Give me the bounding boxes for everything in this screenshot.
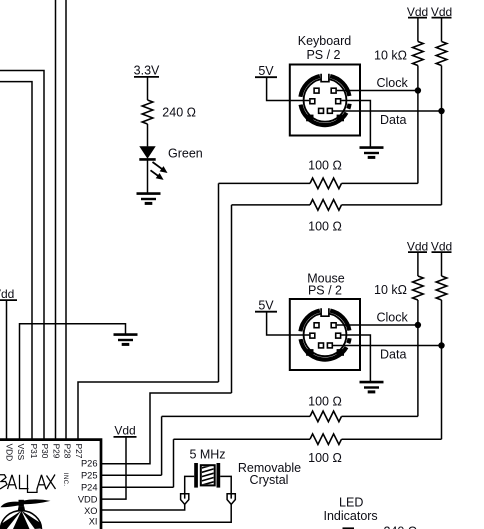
wire data pull-up down to 100 ohm row: [441, 66, 443, 205]
pin 1 (mouse lower-left): [319, 343, 324, 348]
wire 5V to keyboard power pin: [267, 77, 310, 100]
svg-text:240 Ω: 240 Ω: [162, 106, 196, 120]
ground (mouse connector shield): [360, 382, 384, 392]
wire Vdd to clock pull-up resistor: [417, 18, 419, 42]
svg-text:3.3V: 3.3V: [134, 64, 160, 78]
power label 5V: [255, 64, 277, 78]
connector J-keyboard PS/2 outline box: [290, 65, 360, 136]
svg-text:P26: P26: [81, 459, 98, 469]
wire Vdd to clock pull-up resistor: [417, 252, 419, 276]
wire crystal left lead into socket: [185, 476, 195, 498]
Vdd power symbol (mouse clock pull-up): [407, 240, 428, 254]
svg-text:P28: P28: [62, 444, 72, 459]
wire P31 to header (left): [0, 82, 32, 439]
wire mouse ground pin to ground: [341, 335, 370, 381]
svg-text:P27: P27: [74, 444, 84, 459]
Vdd power symbol (chip VDD right pin): [114, 423, 137, 437]
pin 6 (keyboard upper-right, clock): [331, 88, 336, 93]
resistor 100 &#937; (keyboard data series) with wire: [232, 204, 311, 206]
svg-text:Green: Green: [168, 146, 203, 160]
wire P28 to header (top): [65, 0, 67, 439]
clipped label 240 &#937; (bottom edge): [343, 524, 418, 529]
svg-text:P30: P30: [40, 444, 50, 459]
Vdd power symbol (chip VDD top, clipped at left): [0, 287, 17, 301]
Vdd power symbol (keyboard data pull-up): [431, 5, 452, 19]
svg-text:5V: 5V: [258, 64, 274, 78]
pin 5 (keyboard upper-left): [314, 88, 319, 93]
wire LED cathode to ground: [147, 159, 149, 192]
svg-text:Indicators: Indicators: [323, 509, 377, 523]
pin 2 (mouse lower-right, data): [327, 343, 332, 348]
crystal X1 5 MHz: [194, 463, 220, 488]
svg-text:Data: Data: [380, 348, 406, 362]
wire clock pull-up down to 100 ohm row: [417, 66, 419, 184]
resistor 10 k&#937; (mouse data pull-up): [436, 276, 447, 300]
resistor 240 &#937; (LED limiter): [142, 100, 153, 124]
wire P26 to keyboard data row: [101, 393, 232, 464]
resistor 100 &#937; (keyboard clock series) with wire: [219, 182, 311, 184]
resistor 100 &#937; (mouse clock series) with wire: [162, 415, 310, 417]
svg-text:100 Ω: 100 Ω: [308, 451, 342, 465]
svg-text:100 Ω: 100 Ω: [308, 220, 342, 234]
svg-text:Crystal: Crystal: [250, 473, 289, 487]
wire mouse clock row down to P25: [161, 416, 163, 475]
socket pin receptacle (XO side): [181, 494, 189, 505]
connector J-mouse PS/2 outline box: [290, 299, 360, 370]
svg-text:XI: XI: [89, 517, 98, 527]
connector mouse mini-DIN barrel: [300, 308, 349, 359]
junction clock node: [415, 87, 421, 93]
svg-text:5 MHz: 5 MHz: [189, 447, 225, 461]
wire Vdd to data pull-up resistor: [441, 18, 443, 42]
svg-text:PS / 2: PS / 2: [306, 48, 340, 62]
svg-text:Keyboard: Keyboard: [298, 34, 352, 48]
svg-text:240 Ω: 240 Ω: [384, 524, 418, 529]
power label 5V: [255, 299, 277, 313]
wire VSS to ground: [20, 324, 126, 439]
resistor 10 k&#937; (mouse clock pull-up): [413, 276, 424, 300]
chip right pin labels P26 P25 P24 VDD XO XI: [78, 459, 98, 527]
LED D1 Green: [139, 146, 167, 180]
wire P29 to header (top): [55, 0, 57, 439]
svg-text:Clock: Clock: [377, 311, 409, 325]
wire P30 to header (left): [0, 71, 44, 440]
Vdd power symbol (mouse data pull-up): [431, 240, 452, 254]
svg-text:5V: 5V: [258, 299, 274, 313]
Vdd power symbol (keyboard clock pull-up): [407, 5, 428, 19]
wire P25 to mouse clock row: [101, 474, 162, 476]
wire Vdd to data pull-up resistor: [441, 252, 443, 276]
chip U1 Propeller outline: [0, 440, 101, 529]
wire data pull-up down to 100 ohm row: [441, 300, 443, 439]
svg-text:LED: LED: [339, 496, 363, 510]
connector keyboard mini-DIN barrel: [300, 74, 349, 125]
wire mouse data pin to pull-up: [333, 345, 442, 347]
wire mouse data row down to P24: [173, 439, 175, 487]
chip logo propeller beanie: [1, 499, 51, 529]
wire keyboard data row down: [231, 205, 233, 393]
svg-text:Vdd: Vdd: [0, 287, 14, 301]
wire XI to crystal socket: [101, 504, 231, 522]
resistor 10 k&#937; (keyboard clock pull-up): [413, 42, 424, 66]
pin 6 (mouse upper-right, clock): [331, 323, 336, 328]
ground (chip VSS): [114, 335, 138, 345]
wire mouse clock pin to pull-up: [337, 324, 418, 326]
wire clock pull-up down to 100 ohm row: [417, 300, 419, 416]
svg-text:100 Ω: 100 Ω: [308, 159, 342, 173]
svg-text:PS / 2: PS / 2: [308, 283, 342, 297]
pin 3 (keyboard mid-left, 5V): [310, 99, 315, 104]
wire P27 to keyboard clock row: [78, 382, 219, 439]
caption LED Indicators: [323, 496, 377, 523]
svg-text:VSS: VSS: [16, 444, 26, 461]
svg-text:P24: P24: [81, 483, 98, 493]
wire 5V to mouse power pin: [267, 312, 310, 335]
svg-text:10 kΩ: 10 kΩ: [374, 48, 407, 62]
junction data node: [438, 108, 444, 114]
wire Vdd to chip VDD pin: [6, 300, 8, 439]
pin 5 (mouse upper-left): [314, 323, 319, 328]
wire keyboard clock pin to pull-up: [337, 90, 418, 92]
chip logo PARALLAX (clipped): [0, 475, 56, 493]
pin 2 (keyboard lower-right, data): [327, 108, 332, 113]
svg-text:XO: XO: [84, 506, 97, 516]
label Removable Crystal: [238, 461, 301, 487]
resistor 100 &#937; (mouse data series) with wire: [174, 438, 311, 440]
svg-text:VDD: VDD: [78, 494, 98, 504]
svg-text:P31: P31: [29, 444, 39, 459]
junction data node: [438, 342, 444, 348]
pin 3 (mouse mid-left, 5V): [310, 333, 315, 338]
power label 3.3V: [134, 64, 160, 78]
wire resistor to LED anode: [147, 124, 149, 146]
ground (keyboard connector shield): [360, 148, 384, 158]
svg-text:Vdd: Vdd: [114, 423, 135, 437]
svg-text:P25: P25: [81, 471, 98, 481]
svg-text:P29: P29: [51, 444, 61, 459]
resistor 10 k&#937; (keyboard data pull-up): [436, 42, 447, 66]
wire XO to crystal socket: [101, 504, 185, 510]
socket pin receptacle (XI side): [227, 494, 235, 505]
wire keyboard ground pin to ground: [341, 101, 370, 147]
pin 4 (mouse mid-right, gnd): [336, 333, 341, 338]
svg-text:Data: Data: [380, 113, 406, 127]
wire P24 to mouse data row: [101, 486, 174, 488]
wire keyboard clock row down: [218, 183, 220, 382]
pin 4 (keyboard mid-right, gnd): [336, 99, 341, 104]
svg-text:Clock: Clock: [377, 76, 409, 90]
junction clock node: [415, 322, 421, 328]
pin 1 (keyboard lower-left): [319, 108, 324, 113]
svg-text:VDD: VDD: [4, 444, 14, 462]
ground (LED): [137, 194, 161, 204]
svg-text:100 Ω: 100 Ω: [308, 394, 342, 408]
svg-text:INC.: INC.: [62, 473, 68, 487]
wire keyboard data pin to pull-up: [333, 110, 442, 112]
wire 3.3V to resistor: [147, 77, 149, 100]
wire crystal right lead into socket: [220, 476, 231, 498]
chip top pin labels VDD VSS P31 P30 P29 P28 P27: [4, 444, 84, 462]
wire chip VDD pin to Vdd: [101, 437, 126, 499]
svg-text:10 kΩ: 10 kΩ: [374, 283, 407, 297]
